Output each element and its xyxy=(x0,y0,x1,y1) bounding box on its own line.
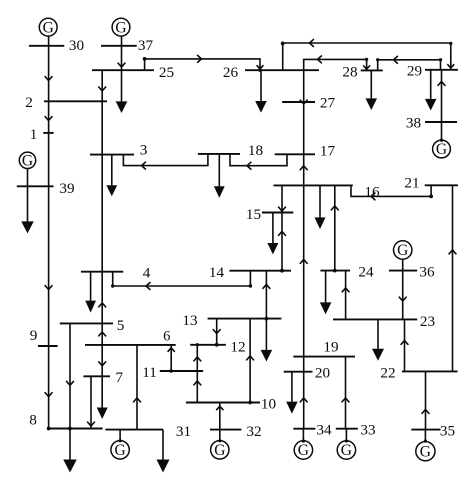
flow arrow 31-6 up xyxy=(133,398,141,402)
flow arrow 4-5 up xyxy=(98,303,106,307)
junction dot G38 stem dot xyxy=(440,139,443,142)
svg-text:1: 1 xyxy=(30,126,38,143)
svg-text:G: G xyxy=(22,153,33,170)
svg-text:5: 5 xyxy=(117,317,125,334)
svg-text:12: 12 xyxy=(230,338,245,355)
junction dot 4-14 corner at 14 side xyxy=(249,284,252,287)
flow arrow 23-24 up xyxy=(342,288,350,292)
load arrow bus 24 xyxy=(325,271,327,303)
wire 16-24 xyxy=(334,185,336,270)
wire 5-8 xyxy=(69,323,71,428)
svg-text:35: 35 xyxy=(440,423,455,440)
wire 17-16 xyxy=(303,154,305,185)
bus 32 bar xyxy=(210,429,241,431)
load arrow bus 28 xyxy=(370,70,372,98)
svg-text:4: 4 xyxy=(143,265,151,282)
bus 19 bar xyxy=(293,356,355,358)
generator G30 (bus 30) xyxy=(39,18,57,36)
svg-text:3: 3 xyxy=(140,142,148,159)
svg-text:G: G xyxy=(397,242,408,259)
svg-text:G: G xyxy=(436,141,447,158)
wire G35 stem xyxy=(424,430,426,442)
wire 27-17 xyxy=(303,102,305,154)
wire 11-10 xyxy=(196,371,198,403)
wire 19-33 xyxy=(345,357,347,429)
wire 4-14 xyxy=(113,271,251,286)
flow arrow 14-4 left xyxy=(146,282,150,290)
svg-text:G: G xyxy=(214,442,225,459)
bus 22 bar xyxy=(402,370,458,372)
junction dot G32 stem dot xyxy=(218,439,221,442)
bus 14 bar xyxy=(229,270,291,272)
svg-text:39: 39 xyxy=(59,180,74,197)
svg-text:G: G xyxy=(114,442,125,459)
load arrow bus 13 xyxy=(265,319,267,350)
svg-text:G: G xyxy=(298,442,309,459)
wire 26-27 xyxy=(303,70,305,102)
generator G32 (bus 32) xyxy=(211,441,229,459)
bus 1 bar xyxy=(43,132,53,134)
junction dot 5-8 at bus 8 xyxy=(68,427,72,431)
load arrow bus 25 xyxy=(121,70,123,101)
load arrow bus 15 xyxy=(272,213,274,244)
wire 16-21 xyxy=(351,185,431,196)
flow arrow 7-8 down xyxy=(87,422,95,426)
svg-text:26: 26 xyxy=(223,64,239,81)
wire 15-14 xyxy=(281,213,283,271)
bus 20 bar xyxy=(284,371,313,373)
svg-text:27: 27 xyxy=(320,95,336,112)
load arrow bus 18 xyxy=(218,154,220,186)
wire 26-28 upper xyxy=(304,59,367,70)
bus 28 bar xyxy=(361,69,383,71)
flow arrow 21-16 left xyxy=(371,193,375,201)
wire 39-9 xyxy=(48,186,50,346)
flow arrow 24-16 up xyxy=(331,206,339,210)
wire 26-29 top xyxy=(283,43,451,70)
wire 16-15 xyxy=(281,185,283,212)
junction dot 13-12 at bus 12 xyxy=(215,343,219,347)
bus 12 bar xyxy=(190,344,226,346)
bus 6 bar xyxy=(85,344,176,346)
wire 2-3 xyxy=(101,101,103,154)
flow arrow 9-8 down xyxy=(45,392,53,396)
flow arrow 13-14 up xyxy=(263,285,271,289)
flow arrow 36-23 down xyxy=(399,297,407,301)
flow arrow 16-15 down xyxy=(278,207,286,211)
wire 5-6 xyxy=(101,323,103,345)
svg-text:22: 22 xyxy=(380,365,395,382)
svg-text:11: 11 xyxy=(142,364,157,381)
wire 4-5 xyxy=(101,272,103,324)
generator G37 (bus 37) xyxy=(112,18,130,36)
wire 25-26 stub at 25 xyxy=(144,59,146,70)
svg-text:29: 29 xyxy=(407,63,422,80)
flow arrow 30-2 down xyxy=(45,76,53,80)
junction dot 14-13 at bus 13 xyxy=(265,317,269,321)
svg-text:30: 30 xyxy=(69,37,85,54)
flow arrow 14-15 up xyxy=(278,232,286,236)
flow arrow 10-11 up xyxy=(193,381,201,385)
flow arrow 5-6 up xyxy=(98,332,106,336)
flow arrow 38-29 up xyxy=(438,82,446,86)
svg-text:19: 19 xyxy=(323,339,338,356)
bus 5 bar xyxy=(60,322,113,324)
bus 3 bar xyxy=(90,154,134,156)
wire 25-2 xyxy=(101,70,103,101)
bus 8 bar xyxy=(47,428,103,430)
wire 13-12 xyxy=(216,319,218,345)
load arrow bus 8 xyxy=(69,429,71,460)
svg-text:7: 7 xyxy=(116,369,124,386)
wire 6-7 xyxy=(101,345,103,376)
bus 2 bar xyxy=(44,100,107,102)
wire 28-29 xyxy=(378,60,441,71)
flow arrow 16-17 up xyxy=(300,166,308,170)
bus 11 bar xyxy=(160,370,203,372)
bus 35 bar xyxy=(411,429,440,431)
svg-text:23: 23 xyxy=(420,313,435,330)
wire 3-18 stub at 3 xyxy=(123,154,207,166)
flow arrow 22-21 up xyxy=(449,250,457,254)
junction dot G34 stem dot xyxy=(302,439,305,442)
bus 4 bar xyxy=(81,271,123,273)
svg-text:2: 2 xyxy=(25,94,33,111)
bus 10 bar xyxy=(186,402,260,404)
wire 30-2 xyxy=(48,46,50,102)
bus 30 bar xyxy=(29,45,64,47)
bus 27 bar xyxy=(282,101,315,103)
junction dot 9-8 at bus 8 xyxy=(47,427,51,431)
svg-text:8: 8 xyxy=(29,412,37,429)
junction dot G33 stem dot xyxy=(345,439,348,442)
flow arrow 13-12 down xyxy=(213,329,221,333)
generator G33 (bus 33) xyxy=(337,441,355,459)
bus 38 bar xyxy=(425,121,457,123)
bus 16 bar xyxy=(274,184,353,186)
svg-text:6: 6 xyxy=(163,328,170,344)
wire 29-38 xyxy=(441,70,443,122)
bus 23 bar xyxy=(333,318,417,320)
wire 17-18 xyxy=(230,154,287,166)
wire G37 stem xyxy=(121,36,123,46)
wire G30 stem xyxy=(48,36,50,46)
junction dot 15-14 at bus 14 xyxy=(280,269,284,273)
load arrow bus 39 xyxy=(27,186,29,221)
flow arrow 34-20 up xyxy=(300,398,308,402)
generator G34 (bus 34) xyxy=(294,441,312,459)
junction dot 6-11 at bus 11 xyxy=(170,369,173,372)
load arrow bus 26 xyxy=(260,70,262,101)
svg-text:10: 10 xyxy=(261,396,277,413)
flow arrow 10-13 up xyxy=(246,356,254,360)
flow arrow 32-10 up xyxy=(216,406,223,410)
generator G39 (bus 39) xyxy=(19,152,35,168)
generator G31 (bus 31) xyxy=(111,441,129,459)
junction dot 28-29 right corner xyxy=(439,58,442,61)
flow arrow 39-9 down xyxy=(45,285,53,289)
flow arrow 25-2 down xyxy=(98,87,106,91)
bus 7 bar xyxy=(83,375,110,377)
flow arrow 35-22 up xyxy=(422,410,430,414)
junction dot 12-11 at bus 12 xyxy=(196,343,199,346)
svg-text:36: 36 xyxy=(419,264,435,281)
svg-text:28: 28 xyxy=(342,64,358,81)
wire 10-32 xyxy=(219,403,221,430)
wire 7-8 xyxy=(90,376,92,428)
wire 14-13 xyxy=(265,271,267,319)
wire 16-19 xyxy=(303,185,305,356)
wire 12-11 xyxy=(196,345,198,371)
svg-text:34: 34 xyxy=(316,422,332,439)
flow arrow 18-3 left xyxy=(142,162,146,170)
svg-text:9: 9 xyxy=(30,327,38,344)
junction dot 13-10 at bus 10 xyxy=(248,401,252,405)
svg-text:37: 37 xyxy=(138,37,154,54)
junction dot 26-29 right corner xyxy=(449,42,452,45)
bus 13 bar xyxy=(208,318,282,320)
load arrow bus 23 xyxy=(377,319,379,348)
wire 1-39 xyxy=(48,133,50,186)
wire 22-35 xyxy=(425,371,427,429)
wire 24-23 xyxy=(345,271,347,320)
junction dot G35 stem dot xyxy=(424,439,427,442)
load arrow bus 4 xyxy=(90,272,92,301)
junction dot 25-26 at bus 26 xyxy=(258,69,261,72)
wire 36-23 xyxy=(402,271,404,320)
wire 19-20 xyxy=(303,357,305,372)
junction dot 16-24 at bus 24 xyxy=(333,269,337,273)
flow arrow 25-26 right xyxy=(197,55,201,63)
load arrow bus 3 xyxy=(111,155,113,186)
svg-text:33: 33 xyxy=(360,422,375,439)
generator G35 (bus 35) xyxy=(416,442,435,461)
flow arrow 5-8 down xyxy=(66,381,74,385)
bus 15 bar xyxy=(262,212,293,214)
bus 34 bar xyxy=(293,428,315,430)
flow arrow 19-16 up xyxy=(300,260,308,264)
flow arrow 37-25 down xyxy=(118,63,126,67)
svg-text:31: 31 xyxy=(176,423,191,440)
bus 29 bar xyxy=(425,69,458,71)
load arrow bus 29 xyxy=(430,70,432,99)
wire 2-1 xyxy=(48,101,50,133)
svg-text:21: 21 xyxy=(404,175,419,192)
wire G33 stem xyxy=(345,429,347,441)
flow arrow 26-28 down into 28 xyxy=(363,65,370,69)
junction dot 26-29 left corner xyxy=(281,42,285,46)
svg-text:14: 14 xyxy=(209,264,225,281)
junction dot 25-26 stub xyxy=(143,57,147,61)
wire 6-11 xyxy=(170,345,172,371)
wire 21-22 xyxy=(452,185,454,371)
flow arrow 26-29 down into 29 xyxy=(447,64,454,68)
wire G38 stem xyxy=(441,122,443,140)
junction dot 16-21 corner at 21 xyxy=(429,195,433,199)
generator G36 (bus 36) xyxy=(394,241,412,259)
junction dot 26-28 corner xyxy=(365,58,368,61)
flow arrow 29-26 left xyxy=(310,39,314,47)
svg-text:25: 25 xyxy=(159,64,174,81)
bus 18 bar xyxy=(198,153,240,155)
wire G34 stem xyxy=(302,429,304,441)
bus 37 bar xyxy=(101,45,137,47)
svg-text:13: 13 xyxy=(182,312,197,329)
svg-text:17: 17 xyxy=(320,142,336,159)
wire 37-25 xyxy=(121,46,123,70)
wire 13-10 xyxy=(249,319,251,403)
bus 26 bar xyxy=(245,69,319,71)
bus 31 bar xyxy=(105,429,163,431)
bus 17 bar xyxy=(275,153,315,155)
load arrow bus 20 xyxy=(291,372,293,402)
flow arrow 28-26 left xyxy=(318,56,322,64)
svg-text:G: G xyxy=(43,19,54,36)
junction dot G31 stem dot xyxy=(119,439,122,442)
flow arrow 33-19 up xyxy=(342,398,350,402)
flow arrow 22-23 up xyxy=(401,341,409,345)
svg-text:24: 24 xyxy=(358,264,374,281)
bus 39 bar xyxy=(17,185,54,187)
svg-text:G: G xyxy=(115,19,126,36)
load arrow bus 16 xyxy=(319,185,321,217)
flow arrow 17-18 left xyxy=(247,162,251,170)
flow arrow 26-27 down into 27 xyxy=(300,100,308,104)
bus 24 bar xyxy=(320,270,350,272)
bus 21 bar xyxy=(425,184,458,186)
wire G39 stem xyxy=(27,169,29,187)
flow arrow 25-26 down into 26 xyxy=(257,65,264,69)
flow arrow 11-6 up xyxy=(168,348,175,352)
flow arrow 6-7 down xyxy=(98,361,106,365)
svg-text:G: G xyxy=(341,442,352,459)
svg-text:38: 38 xyxy=(406,115,422,132)
svg-text:G: G xyxy=(420,443,431,460)
flow arrow 11-12 up xyxy=(193,357,201,361)
bus 36 bar xyxy=(389,270,417,272)
load arrow bus 31 xyxy=(162,430,164,460)
wire 6-31 xyxy=(136,345,138,430)
flow arrow 29-28 left xyxy=(394,56,398,64)
wire 9-8 xyxy=(48,346,50,429)
wire 25-26 xyxy=(145,59,260,70)
wire G36 stem xyxy=(402,259,404,270)
flow arrow 2-1 down xyxy=(45,116,53,120)
svg-text:32: 32 xyxy=(246,423,261,440)
svg-text:15: 15 xyxy=(246,206,261,223)
junction dot 28-29 left corner xyxy=(376,58,379,61)
load arrow bus 7 xyxy=(101,376,103,407)
junction dot 4-14 corner at 4 side xyxy=(111,284,114,287)
svg-text:20: 20 xyxy=(315,365,331,382)
wire G31 stem xyxy=(119,430,121,441)
bus 33 bar xyxy=(336,428,358,430)
wire 3-4 xyxy=(101,155,103,272)
wire 20-34 xyxy=(303,372,305,429)
wire G32 stem xyxy=(219,430,221,441)
bus 9 bar xyxy=(38,345,58,347)
bus 25 bar xyxy=(92,69,154,71)
wire 23-22 xyxy=(404,319,406,371)
generator G38 (bus 38) xyxy=(433,140,451,158)
svg-text:18: 18 xyxy=(248,142,264,159)
